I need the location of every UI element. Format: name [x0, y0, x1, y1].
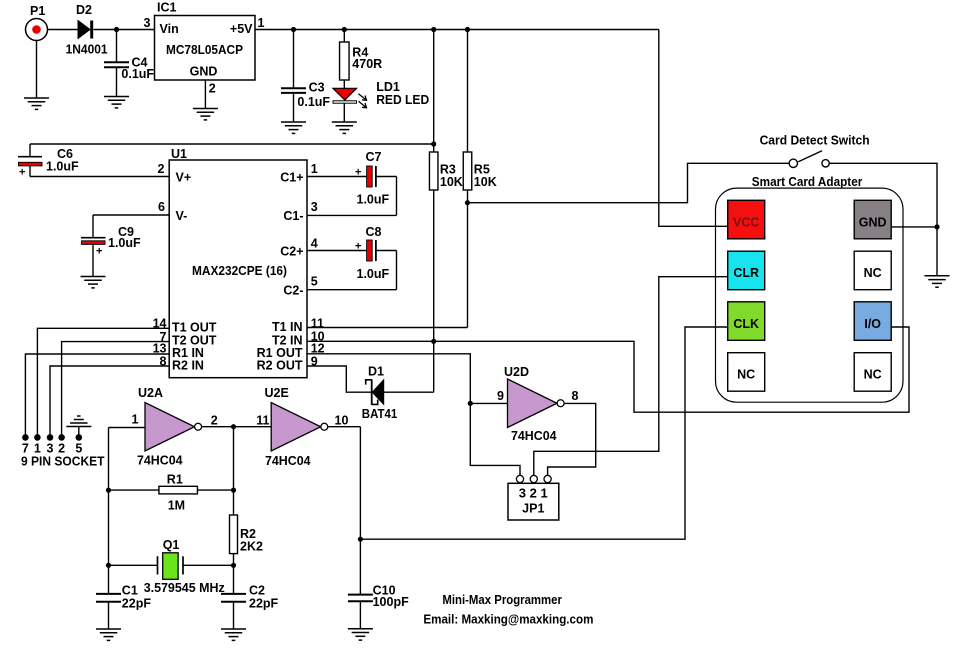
svg-text:3 2 1: 3 2 1 [519, 487, 548, 501]
svg-text:11: 11 [256, 414, 269, 428]
svg-text:NC: NC [864, 368, 882, 382]
svg-text:GND: GND [859, 215, 887, 229]
svg-text:D1: D1 [368, 365, 384, 379]
svg-text:1: 1 [132, 413, 139, 427]
svg-text:T1 IN: T1 IN [272, 320, 303, 334]
svg-text:NC: NC [737, 368, 755, 382]
svg-text:22pF: 22pF [122, 597, 152, 611]
svg-text:MC78L05ACP: MC78L05ACP [166, 43, 243, 57]
svg-text:+5V: +5V [230, 22, 253, 36]
svg-text:P1: P1 [30, 4, 45, 18]
svg-text:C7: C7 [366, 150, 382, 164]
svg-text:NC: NC [864, 266, 882, 280]
svg-text:10: 10 [335, 414, 349, 428]
svg-text:1: 1 [311, 162, 318, 176]
svg-text:6: 6 [158, 200, 165, 214]
svg-text:V+: V+ [176, 171, 192, 185]
svg-text:2K2: 2K2 [240, 540, 263, 554]
svg-text:BAT41: BAT41 [362, 407, 398, 421]
svg-text:JP1: JP1 [522, 502, 544, 516]
svg-text:V-: V- [176, 209, 188, 223]
svg-text:+: + [355, 167, 361, 179]
svg-text:1.0uF: 1.0uF [46, 160, 79, 174]
svg-text:Email: Maxking@maxking.com: Email: Maxking@maxking.com [423, 613, 593, 627]
svg-text:U2A: U2A [138, 386, 163, 400]
svg-text:1.0uF: 1.0uF [357, 267, 390, 281]
svg-text:8: 8 [572, 389, 579, 403]
svg-text:2: 2 [209, 82, 216, 96]
svg-text:D2: D2 [76, 3, 92, 17]
svg-text:R1: R1 [167, 472, 183, 486]
svg-text:0.1uF: 0.1uF [297, 95, 330, 109]
svg-text:C2-: C2- [283, 284, 303, 298]
svg-text:1.0uF: 1.0uF [357, 193, 390, 207]
svg-text:100pF: 100pF [373, 595, 409, 609]
svg-text:9: 9 [497, 389, 504, 403]
svg-text:CLR: CLR [733, 266, 759, 280]
svg-text:MAX232CPE (16): MAX232CPE (16) [192, 264, 287, 278]
svg-text:9 PIN SOCKET: 9 PIN SOCKET [21, 454, 105, 468]
svg-text:Vin: Vin [160, 22, 179, 36]
svg-text:2: 2 [158, 162, 165, 176]
svg-text:U2D: U2D [504, 365, 529, 379]
svg-text:3: 3 [144, 16, 151, 30]
svg-text:U1: U1 [171, 147, 187, 161]
svg-text:LD1: LD1 [376, 80, 400, 94]
svg-text:470R: 470R [352, 57, 382, 71]
svg-text:Smart Card Adapter: Smart Card Adapter [752, 175, 863, 189]
svg-text:+: + [96, 246, 102, 258]
svg-text:3.579545 MHz: 3.579545 MHz [144, 581, 225, 595]
svg-text:1M: 1M [168, 499, 185, 513]
svg-text:4: 4 [311, 237, 318, 251]
svg-text:10K: 10K [474, 175, 497, 189]
svg-text:Card Detect Switch: Card Detect Switch [760, 133, 870, 147]
svg-text:0.1uF: 0.1uF [121, 67, 154, 81]
svg-text:C3: C3 [309, 81, 325, 95]
svg-text:RED LED: RED LED [376, 93, 429, 107]
svg-text:+: + [355, 241, 361, 253]
svg-text:74HC04: 74HC04 [265, 454, 311, 468]
svg-text:1.0uF: 1.0uF [108, 236, 141, 250]
svg-text:C1: C1 [122, 584, 138, 598]
svg-text:5: 5 [311, 275, 318, 289]
svg-text:U2E: U2E [265, 386, 289, 400]
svg-text:10K: 10K [440, 175, 463, 189]
svg-text:C1-: C1- [283, 209, 303, 223]
svg-text:Mini-Max Programmer: Mini-Max Programmer [442, 593, 562, 607]
svg-text:IC1: IC1 [157, 1, 177, 15]
svg-text:22pF: 22pF [249, 597, 279, 611]
svg-text:VCC: VCC [733, 215, 759, 229]
svg-text:Q1: Q1 [163, 538, 180, 552]
svg-text:C2: C2 [249, 584, 265, 598]
svg-text:R2 IN: R2 IN [172, 358, 204, 372]
svg-text:C2+: C2+ [280, 245, 303, 259]
svg-text:13: 13 [153, 341, 167, 355]
svg-text:1N4001: 1N4001 [66, 43, 108, 57]
svg-text:74HC04: 74HC04 [137, 454, 183, 468]
svg-text:74HC04: 74HC04 [511, 429, 557, 443]
svg-text:C8: C8 [366, 225, 382, 239]
svg-text:3: 3 [311, 200, 318, 214]
svg-text:C1+: C1+ [280, 171, 303, 185]
svg-text:2: 2 [211, 414, 218, 428]
svg-text:GND: GND [190, 65, 218, 79]
svg-text:T1 OUT: T1 OUT [172, 320, 217, 334]
svg-text:1: 1 [258, 16, 265, 30]
svg-text:I/O: I/O [864, 317, 881, 331]
svg-text:CLK: CLK [733, 317, 759, 331]
svg-text:R2 OUT: R2 OUT [257, 358, 303, 372]
svg-text:+: + [19, 167, 25, 179]
